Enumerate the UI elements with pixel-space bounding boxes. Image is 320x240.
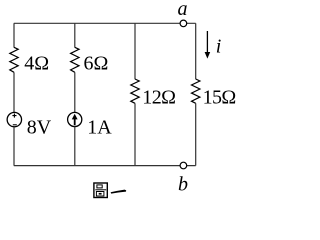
wire left branch lower	[13, 127, 15, 166]
current i arrow	[206, 31, 208, 54]
wire right branch upper	[195, 23, 197, 79]
wire right branch lower	[195, 103, 197, 165]
wire second branch middle	[74, 72, 76, 112]
voltage source minus sign	[13, 124, 17, 126]
svg-text:4Ω: 4Ω	[24, 52, 49, 74]
wire second branch upper	[74, 23, 76, 47]
resistor R 4ohm	[10, 47, 18, 72]
wire top horizontal	[14, 22, 196, 24]
terminal b	[180, 162, 187, 169]
wire third branch upper	[134, 23, 136, 79]
svg-text:1A: 1A	[87, 116, 112, 138]
resistor R 12ohm	[131, 79, 139, 103]
svg-text:8V: 8V	[27, 117, 52, 139]
terminal a	[180, 20, 187, 27]
caption char yi (one)	[111, 190, 127, 194]
voltage source 8V circle	[7, 112, 21, 126]
svg-text:6Ω: 6Ω	[84, 52, 109, 74]
resistor R 15ohm	[192, 79, 200, 103]
svg-text:15Ω: 15Ω	[203, 87, 236, 109]
wire second branch lower	[74, 127, 76, 166]
voltage source plus sign	[12, 114, 16, 118]
svg-text:12Ω: 12Ω	[142, 87, 175, 109]
wire left branch middle	[13, 72, 15, 112]
resistor R 6ohm	[71, 47, 79, 72]
current source 1A circle	[68, 112, 82, 126]
current source arrow	[74, 118, 76, 125]
wire bottom horizontal	[14, 165, 196, 167]
caption char tu (figure)	[94, 183, 107, 198]
svg-text:i: i	[216, 36, 222, 58]
wire third branch lower	[134, 103, 136, 165]
svg-text:a: a	[178, 0, 188, 20]
svg-text:b: b	[178, 173, 188, 195]
wire left branch upper	[13, 23, 15, 47]
